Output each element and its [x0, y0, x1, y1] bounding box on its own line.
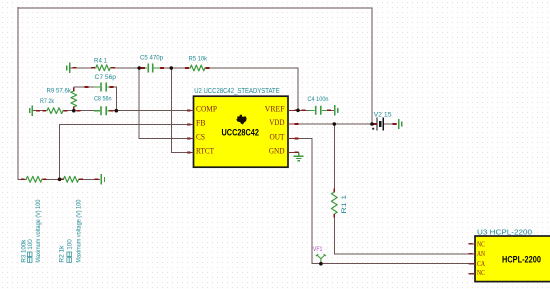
- wire OUT to CA: [295, 139, 469, 264]
- svg-text:COMP: COMP: [196, 104, 217, 114]
- connector IO2 left of R7: [30, 106, 33, 116]
- wire battery right: [384, 123, 397, 125]
- junction VREF: [296, 109, 300, 113]
- svg-text:U2 UCC28C42_STEADYSTATE: U2 UCC28C42_STEADYSTATE: [194, 88, 280, 95]
- U2 pin stubs: [187, 110, 295, 152]
- svg-text:R5 10k: R5 10k: [189, 55, 208, 62]
- svg-text:CA: CA: [477, 260, 485, 268]
- capacitor C8 plates: [101, 106, 106, 115]
- capacitor C8 leads: [94, 110, 113, 112]
- svg-text:UCC28C42: UCC28C42: [222, 127, 259, 138]
- svg-text:HCPL-2200: HCPL-2200: [502, 255, 541, 266]
- wire C8 row: [74, 110, 117, 112]
- wire VREF to C4: [295, 109, 309, 111]
- ground at GND pin: [294, 152, 304, 161]
- wire VDD row: [295, 123, 372, 125]
- pin ticks R4: [73, 67, 115, 69]
- junction R9 bottom: [72, 109, 76, 113]
- junction VDD: [333, 122, 337, 126]
- svg-text:Maximum voltage (V) 100: Maximum voltage (V) 100: [35, 199, 42, 262]
- wire C5 to R5 to VREF corner: [160, 68, 298, 110]
- connector IO5 right of V2: [399, 119, 402, 129]
- svg-text:100: 100: [67, 239, 74, 250]
- capacitor C4 plates: [316, 106, 321, 115]
- svg-text:NC: NC: [477, 240, 485, 248]
- svg-text:V2 15: V2 15: [374, 112, 392, 119]
- IC U2 UCC28C42 box: [194, 96, 289, 167]
- wire R1 to AN: [334, 214, 468, 254]
- svg-text:VDD: VDD: [269, 117, 284, 127]
- svg-text:Maximum voltage (V) 100: Maximum voltage (V) 100: [76, 199, 83, 262]
- wire C7 row: [74, 87, 117, 111]
- wire RTCT drop from C5 right junction: [171, 68, 187, 153]
- junction C5 right: [170, 66, 174, 70]
- resistor R3: [26, 176, 42, 182]
- wire C4 right to connector: [327, 109, 333, 111]
- pin ticks C4: [302, 109, 331, 111]
- battery polarity dot: [372, 128, 374, 130]
- pin ticks U3: [469, 244, 473, 274]
- U3 pin stubs: [469, 244, 475, 274]
- pin ticks U2 left: [187, 111, 191, 153]
- pin ticks R1: [333, 189, 335, 218]
- junction C5 left: [137, 66, 141, 70]
- svg-text:C5 470p: C5 470p: [140, 54, 163, 61]
- junction V2: [370, 122, 374, 126]
- pin ticks R5: [185, 67, 209, 69]
- pin ticks R2: [60, 178, 99, 180]
- connector IO1 left of R4: [67, 63, 70, 73]
- wire right drop to V2: [371, 8, 373, 124]
- wire VDD junction to R1: [333, 124, 335, 192]
- svg-text:C7 56p: C7 56p: [95, 74, 117, 81]
- svg-text:GND: GND: [269, 145, 285, 155]
- junction C8 right: [115, 109, 119, 113]
- label R2 power rotated: [67, 239, 74, 263]
- resistor R9: [71, 91, 77, 107]
- pin ticks U2 right: [295, 110, 299, 152]
- resistor R4: [96, 65, 111, 71]
- capacitor C7 leads: [94, 86, 113, 88]
- capacitor C4 leads: [309, 109, 327, 111]
- svg-text:FB: FB: [196, 118, 206, 128]
- pin ticks V2: [373, 123, 396, 125]
- pin ticks R3: [21, 178, 47, 180]
- connector IO3 right of R2: [101, 174, 104, 184]
- connector IO4 right of C4: [335, 105, 338, 115]
- wire R3 R2 row: [18, 178, 100, 180]
- svg-text:VREF: VREF: [265, 103, 285, 113]
- resistor R5: [190, 65, 205, 71]
- svg-text:NC: NC: [477, 269, 485, 277]
- label R3 power rotated: [27, 239, 34, 263]
- wire R9 stubs: [73, 87, 75, 111]
- pin ticks R7: [36, 110, 67, 112]
- pin ticks C5: [141, 67, 164, 69]
- svg-text:R1 1: R1 1: [341, 194, 348, 214]
- U2 TI logo: [236, 115, 247, 125]
- pin ticks R9: [73, 87, 75, 110]
- IC U3 HCPL-2200 box: [475, 236, 550, 282]
- wire COMP row: [116, 110, 187, 112]
- svg-text:RTCT: RTCT: [196, 146, 215, 156]
- wire top outer: [18, 7, 372, 9]
- resistor R7: [47, 108, 63, 114]
- wire FB row and drop: [60, 125, 188, 180]
- svg-text:AN: AN: [477, 250, 485, 258]
- wire battery left: [372, 123, 377, 125]
- wire GND stub: [295, 151, 299, 153]
- wire left outer: [17, 8, 19, 180]
- wire R7 row: [33, 110, 74, 112]
- wire C5 left lead gap: [139, 67, 141, 69]
- probe VF1: [316, 254, 326, 263]
- resistor R1: [331, 192, 337, 214]
- wire CS drop from C5 left junction: [139, 68, 187, 139]
- svg-text:R9 57.6k: R9 57.6k: [47, 87, 72, 94]
- junction VF1: [319, 262, 323, 266]
- capacitor C7 plates: [101, 83, 106, 92]
- capacitor C5 plates: [148, 64, 152, 73]
- svg-text:U3 HCPL-2200: U3 HCPL-2200: [477, 229, 532, 236]
- pin ticks C7: [85, 86, 114, 88]
- resistor R2: [63, 176, 78, 182]
- battery V2: [377, 118, 383, 131]
- svg-text:R4 1: R4 1: [94, 58, 107, 65]
- svg-text:OUT: OUT: [270, 132, 286, 142]
- svg-text:VF1: VF1: [313, 246, 323, 253]
- svg-text:C8 56n: C8 56n: [94, 96, 112, 103]
- junction R3 R2: [58, 178, 62, 182]
- svg-text:100: 100: [27, 239, 34, 250]
- svg-text:R2 1k: R2 1k: [59, 245, 66, 263]
- pin ticks C8: [77, 110, 114, 112]
- svg-text:R7 2k: R7 2k: [40, 98, 55, 105]
- svg-text:CS: CS: [196, 132, 205, 142]
- capacitor C5 leads: [141, 67, 160, 69]
- wire R4 row: [70, 67, 139, 69]
- svg-text:C4 100n: C4 100n: [308, 96, 329, 103]
